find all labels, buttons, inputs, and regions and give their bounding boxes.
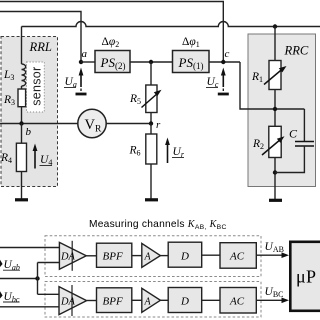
svg-text:AC: AC xyxy=(229,251,245,263)
wire bus3 with hops xyxy=(22,22,320,27)
node r xyxy=(149,121,153,125)
wire Uab top input xyxy=(0,247,59,249)
wire PS2 to PS1 xyxy=(130,61,173,63)
RRC box xyxy=(248,34,316,187)
wire A2 to D2 xyxy=(160,299,168,301)
resistor R1 (adjustable) xyxy=(264,61,287,90)
wire Ubc bottom input xyxy=(0,306,59,308)
A2 amplifier xyxy=(142,288,161,312)
wire D1 to AC1 xyxy=(202,254,220,256)
wire BPF1 to A1 xyxy=(132,255,142,257)
wire DA2 to BPF2 xyxy=(87,300,97,302)
microprocessor uP xyxy=(290,242,320,311)
wire b horizontal to VR xyxy=(0,123,78,125)
svg-text:D: D xyxy=(180,251,189,263)
sensor box xyxy=(27,62,45,112)
node a xyxy=(79,60,83,64)
wire AC1 to uP with arrow xyxy=(256,252,289,258)
svg-text:r: r xyxy=(156,119,161,131)
Ur arrow xyxy=(165,138,170,164)
svg-text:c: c xyxy=(225,48,230,60)
node b xyxy=(19,121,23,125)
wire DA1 to BPF1 xyxy=(86,255,96,257)
wire bus2 xyxy=(0,12,81,63)
resistor R6 xyxy=(146,134,157,164)
wire b down to R4 xyxy=(21,124,23,144)
BPF2 xyxy=(97,288,132,313)
svg-text:A: A xyxy=(144,297,152,308)
RRL dashed box xyxy=(1,37,58,187)
wire from bus3 down to L3 xyxy=(21,27,23,65)
node below R1 xyxy=(273,107,277,111)
common b wire xyxy=(0,278,38,280)
svg-text:b: b xyxy=(26,126,32,138)
wire VR to r xyxy=(106,123,151,125)
wire to DA1 lower input xyxy=(38,262,60,264)
wire r to R6 xyxy=(150,124,152,135)
wire a to PS2 xyxy=(81,61,95,63)
wire bus1 top xyxy=(0,2,223,63)
svg-text:BPF: BPF xyxy=(103,251,123,263)
node common xyxy=(35,276,39,280)
node R2 bottom xyxy=(273,170,277,174)
inductor L3 xyxy=(22,64,26,86)
wire R3 to b xyxy=(21,107,23,124)
svg-text:AC: AC xyxy=(229,296,245,308)
ground bar under R4 xyxy=(15,198,28,201)
AC1 xyxy=(220,243,256,269)
resistor R5 (adjustable) xyxy=(142,85,162,113)
svg-text:DA: DA xyxy=(60,297,76,308)
resistor R4 xyxy=(16,143,26,171)
wire R1 to node xyxy=(274,90,276,127)
svg-text:μP: μP xyxy=(296,266,316,286)
ground bar under R6 xyxy=(145,198,158,201)
DA2 amplifier xyxy=(59,285,87,316)
wire R4 to ground xyxy=(21,172,23,200)
node on bus3 to R1 xyxy=(273,24,277,28)
svg-text:a: a xyxy=(82,48,88,60)
channel 2 dashed box xyxy=(45,282,261,318)
cropped arrow fragment left of Ubc xyxy=(0,291,3,298)
svg-text:Measuring channels KAB, KBC: Measuring channels KAB, KBC xyxy=(89,219,227,231)
ground bar under RRC xyxy=(269,199,282,202)
svg-text:A: A xyxy=(144,252,152,263)
D1 xyxy=(168,242,202,267)
wire AC2 to uP with arrow xyxy=(256,298,289,304)
channel 1 dashed box xyxy=(45,236,261,277)
VR meter xyxy=(78,109,106,137)
svg-text:RRC: RRC xyxy=(284,44,309,58)
wire D2 to AC2 xyxy=(202,299,220,301)
wire A1 to D1 xyxy=(160,255,168,257)
Ua arrow xyxy=(76,68,87,95)
wire to DA2 upper input xyxy=(38,293,60,295)
AC2 xyxy=(220,288,256,314)
A1 amplifier xyxy=(142,243,161,267)
svg-text:BPF: BPF xyxy=(103,296,123,308)
svg-text:C: C xyxy=(289,127,298,141)
svg-text:sensor: sensor xyxy=(29,66,43,105)
phase shifter PS1 xyxy=(173,51,210,73)
resistor R3 xyxy=(18,89,26,107)
wire R6 to ground xyxy=(150,164,152,199)
BPF1 xyxy=(97,243,132,267)
phase shifter PS2 xyxy=(95,51,130,73)
common bracket vertical xyxy=(37,263,39,295)
wire R5 top xyxy=(150,62,152,85)
Uc arrow xyxy=(218,68,229,95)
DA1 amplifier xyxy=(59,241,86,271)
svg-text:DA: DA xyxy=(60,252,76,263)
wire R5 to r xyxy=(150,113,152,124)
node above R5 xyxy=(149,60,153,64)
wire R2 to ground node xyxy=(274,158,276,200)
wire BPF2 to A2 xyxy=(132,299,142,301)
node c xyxy=(221,60,225,64)
wire PS1 to c and beyond xyxy=(209,61,240,63)
resistor R2 (adjustable) xyxy=(262,126,285,157)
capacitor C xyxy=(275,109,314,173)
svg-text:D: D xyxy=(180,296,189,308)
U4 arrow xyxy=(33,144,38,169)
wire down to R1 xyxy=(274,27,276,61)
D2 xyxy=(168,288,202,313)
wire L3 to R3 xyxy=(21,86,23,89)
svg-text:RRL: RRL xyxy=(29,40,52,54)
wire c down-right into RRC xyxy=(240,62,304,109)
cropped arrow fragment left of Uab xyxy=(0,260,3,267)
